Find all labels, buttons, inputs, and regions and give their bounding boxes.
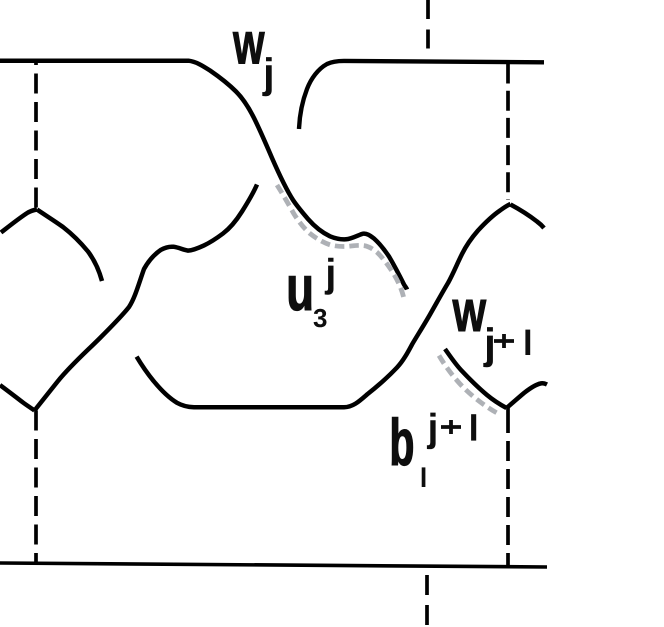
top horizontal line + strand w_j descending with tangency bump xyxy=(0,61,407,290)
dashed vertical below V vertex x=508 xyxy=(506,408,510,566)
V strand left arm xyxy=(445,349,507,408)
label w_j+1 : W xyxy=(453,300,487,331)
dashed vertical above top line x=428 xyxy=(426,0,430,59)
dashed vertical below bottom line x=427 xyxy=(425,575,429,627)
label b_1^j+1 : superscript 1 xyxy=(471,414,476,440)
label w_j+1 : subscript plus xyxy=(494,334,514,348)
dashed vertical below top line x=36 xyxy=(34,63,38,209)
U-shaped strand xyxy=(137,204,511,407)
bottom-left cusp left branch xyxy=(0,385,35,411)
V strand right arm xyxy=(507,383,548,408)
gray dashed arc u_3^j xyxy=(277,185,404,299)
dashed vertical from top line to peak x=508 xyxy=(506,64,510,201)
left cusp left branch xyxy=(1,210,37,233)
label b_1^j+1 : superscript plus xyxy=(441,420,461,434)
short tick at peak xyxy=(511,205,545,229)
left cusp right branch xyxy=(37,210,102,282)
label b_1^j+1 : b xyxy=(392,417,413,465)
bottom horizontal line xyxy=(0,563,547,567)
dashed vertical above bottom line x=36 xyxy=(34,411,38,563)
gray dashed arc b_1 xyxy=(439,356,500,415)
top-right hook + horizontal line xyxy=(299,61,544,129)
label w_j+1 : subscript j xyxy=(483,327,493,367)
label u_3^j : u xyxy=(289,276,311,310)
label b_1^j+1 : subscript 1 xyxy=(422,467,426,487)
label w_j : subscript j xyxy=(262,57,271,96)
long ascending strand with tangency wiggle xyxy=(35,185,258,411)
label w_j+1 : subscript 1 xyxy=(525,330,530,355)
label u_3^j : superscript j xyxy=(325,258,334,295)
label u_3^j : subscript 3 xyxy=(314,309,327,328)
label w_j : W xyxy=(233,32,265,63)
label b_1^j+1 : superscript j xyxy=(427,413,436,450)
